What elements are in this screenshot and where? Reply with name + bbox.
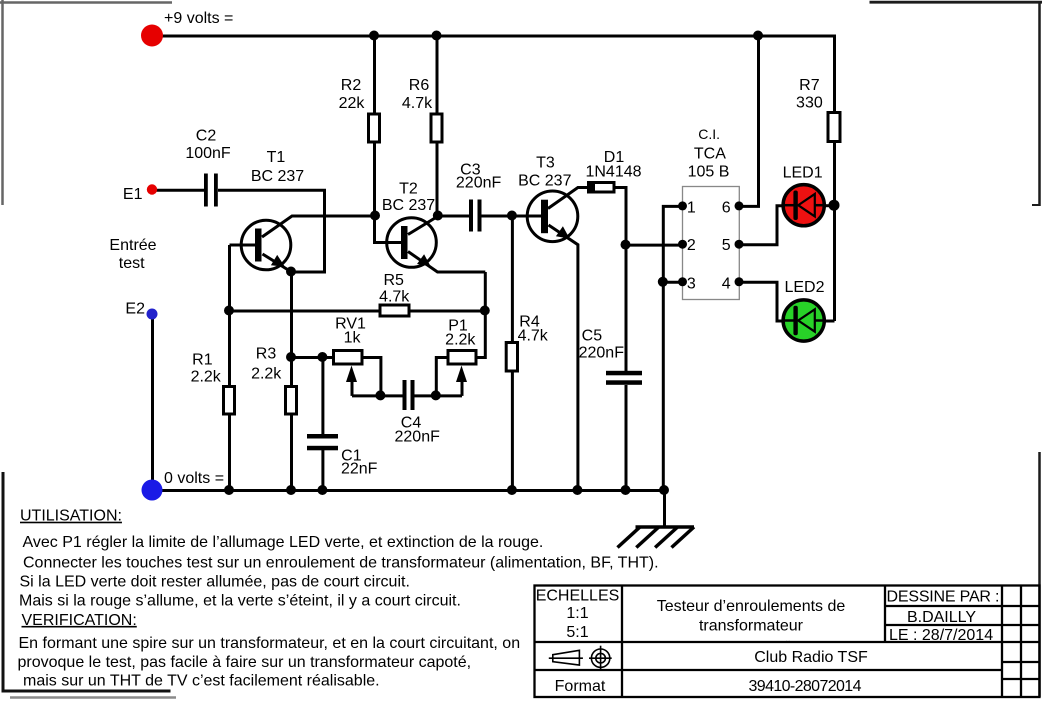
- svg-text:2.2k: 2.2k: [251, 366, 282, 383]
- svg-text:E2: E2: [125, 301, 145, 318]
- wire R2 bottom to T2 base: [375, 142, 403, 243]
- svg-text:LE : 28/7/2014: LE : 28/7/2014: [889, 627, 993, 644]
- wire RV1 wiper rail to C4: [352, 394, 404, 397]
- node +9V power terminal: [141, 25, 163, 47]
- transistor T3: [527, 191, 578, 242]
- svg-text:UTILISATION:: UTILISATION:: [20, 508, 122, 525]
- title block texts: [536, 588, 1000, 696]
- svg-text:R1: R1: [192, 352, 213, 369]
- resistor R6: [431, 114, 442, 142]
- svg-text:Avec P1 régler la limite de l’: Avec P1 régler la limite de l’allumage L…: [23, 534, 544, 551]
- wire R4 lower: [511, 371, 514, 491]
- frame top-right segment: [870, 1, 1042, 4]
- resistor R1: [224, 387, 235, 415]
- svg-text:B.DAILLY: B.DAILLY: [907, 609, 976, 626]
- wire R7 bottom to LED2: [833, 142, 836, 322]
- wire pin5 to LED1: [739, 206, 785, 245]
- svg-text:Testeur d’enroulements de: Testeur d’enroulements de: [657, 598, 846, 615]
- svg-text:22nF: 22nF: [341, 461, 378, 478]
- svg-text:1k: 1k: [344, 330, 362, 347]
- capacitor C5: [606, 371, 642, 385]
- IC pin dots: [678, 201, 744, 286]
- svg-text:1:1: 1:1: [566, 605, 588, 622]
- wire R6 node to C3: [438, 215, 470, 218]
- wire R7 top: [833, 35, 836, 114]
- resistor R4: [506, 343, 517, 372]
- svg-text:22k: 22k: [339, 95, 366, 112]
- wire T1 emitter lead: [263, 254, 292, 272]
- LED2 green: [783, 300, 824, 341]
- svg-text:test: test: [119, 255, 145, 272]
- potentiometer RV1 body: [334, 351, 363, 365]
- diode D1 body: [589, 183, 615, 193]
- potentiometer P1 wiper arrow: [456, 366, 467, 383]
- wire P1 left terminal up: [436, 358, 449, 396]
- wire C5 upper: [625, 245, 628, 372]
- svg-text:R6: R6: [409, 77, 430, 94]
- node E2 terminal: [147, 309, 158, 320]
- wire R5 right: [410, 310, 486, 313]
- wire R5 left: [230, 310, 382, 313]
- svg-text:ECHELLES: ECHELLES: [536, 588, 620, 605]
- wire C5 lower: [625, 385, 628, 491]
- svg-text:330: 330: [796, 95, 823, 112]
- wire C1 bottom: [321, 450, 324, 491]
- svg-text:4: 4: [722, 276, 731, 293]
- wire T3 emitter lead: [549, 225, 578, 491]
- notes box bottom border: [2, 690, 171, 693]
- wire R1 line lower: [228, 414, 231, 491]
- svg-text:Si la LED verte doit rester al: Si la LED verte doit rester allumée, pas…: [20, 573, 410, 590]
- svg-text:2.2k: 2.2k: [191, 369, 222, 386]
- capacitor C4: [403, 380, 415, 410]
- svg-text:mais sur un THT de TV c’est fa: mais sur un THT de TV c’est facilement r…: [23, 673, 380, 690]
- wire R3 line lower: [290, 414, 293, 491]
- wire pin3: [663, 281, 682, 284]
- svg-text:BC 237: BC 237: [382, 197, 435, 214]
- wire C3 to T3 base: [482, 215, 543, 218]
- node E1 terminal: [147, 184, 157, 194]
- projection symbol cone: [549, 650, 583, 665]
- resistor R2: [369, 114, 380, 142]
- wire T1 emitter / R3 line upper: [290, 272, 293, 388]
- notes box shadow: [10, 696, 176, 699]
- ground symbol: [618, 527, 695, 548]
- wire 0V bottom rail: [153, 489, 665, 492]
- svg-text:220nF: 220nF: [395, 429, 441, 446]
- svg-text:6: 6: [722, 200, 731, 217]
- svg-text:BC 237: BC 237: [518, 173, 571, 190]
- frame top-left segment: [0, 1, 172, 4]
- frame right tick: [1032, 204, 1040, 206]
- wire T1 base to R1 line: [230, 244, 257, 247]
- wire T2 collector to R6 node: [408, 216, 438, 235]
- svg-text:BC 237: BC 237: [251, 168, 304, 185]
- wire P1 wiper shaft: [461, 380, 464, 396]
- svg-text:39410-28072014: 39410-28072014: [749, 678, 862, 695]
- wire RV1 wiper shaft: [351, 380, 354, 396]
- svg-text:2.2k: 2.2k: [445, 332, 476, 349]
- wire T1 collector to R2 node: [262, 216, 376, 237]
- frame left upper segment: [1, 0, 4, 205]
- wire P1 right to T2 emitter line: [476, 272, 486, 358]
- svg-text:3: 3: [687, 276, 696, 293]
- resistor R5: [380, 305, 409, 316]
- capacitor C1: [307, 434, 338, 450]
- wire LED1 right: [824, 204, 835, 207]
- svg-text:T2: T2: [399, 181, 418, 198]
- wire C4 right to P1 wiper: [414, 394, 462, 397]
- svg-text:TCA: TCA: [694, 146, 726, 163]
- svg-text:0 volts =: 0 volts =: [164, 470, 224, 487]
- notes box left border: [2, 472, 5, 693]
- svg-text:220nF: 220nF: [579, 345, 625, 362]
- svg-text:C2: C2: [196, 128, 217, 145]
- notes paragraph: [18, 508, 659, 690]
- svg-text:R7: R7: [799, 77, 820, 94]
- wire pin2: [626, 244, 683, 247]
- svg-text:C.I.: C.I.: [698, 126, 720, 142]
- svg-text:100nF: 100nF: [185, 145, 231, 162]
- svg-text:4.7k: 4.7k: [379, 289, 410, 306]
- svg-text:T3: T3: [536, 155, 555, 172]
- wire R6 top: [436, 36, 439, 116]
- svg-text:provoque le test, pas facile à: provoque le test, pas facile à faire sur…: [18, 654, 472, 671]
- wire E2 down: [151, 315, 154, 491]
- svg-text:En formant une spire sur un tr: En formant une spire sur un transformate…: [19, 635, 521, 652]
- svg-text:LED1: LED1: [783, 165, 823, 182]
- potentiometer RV1 wiper arrow: [346, 366, 357, 383]
- projection symbol target circle: [589, 646, 612, 670]
- svg-text:5: 5: [722, 237, 731, 254]
- wire R1 line upper: [228, 245, 231, 388]
- svg-text:4.7k: 4.7k: [518, 328, 549, 345]
- wire T3 collector to D1: [548, 188, 590, 209]
- svg-text:¨: ¨: [786, 638, 790, 653]
- transistor T2: [387, 218, 437, 268]
- wire ground stub: [663, 491, 666, 528]
- svg-text:Format: Format: [555, 678, 606, 695]
- svg-text:1: 1: [687, 200, 696, 217]
- wire +9V top rail: [153, 35, 835, 38]
- wire pin4 to LED2: [739, 282, 785, 321]
- frame right upper segment: [1038, 2, 1041, 206]
- wire R4 upper: [511, 216, 514, 344]
- resistor R7: [828, 113, 840, 142]
- wire pin1 to pin3 line: [663, 206, 682, 490]
- LED1 red: [783, 185, 824, 226]
- capacitor C2: [204, 174, 218, 207]
- svg-text:transformateur: transformateur: [699, 618, 804, 635]
- wire C2 to T1 emitter: [218, 190, 325, 272]
- svg-text:Entrée: Entrée: [109, 237, 156, 254]
- svg-text:R5: R5: [383, 272, 404, 289]
- svg-text:Mais si la rouge s’allume, et: Mais si la rouge s’allume, et la verte s…: [19, 593, 461, 610]
- svg-text:C5: C5: [582, 328, 603, 345]
- title block grid: [535, 586, 1040, 698]
- potentiometer P1 body: [448, 351, 476, 365]
- svg-text:1N4148: 1N4148: [585, 164, 641, 181]
- svg-text:R2: R2: [341, 77, 362, 94]
- wire R2 top: [373, 36, 376, 116]
- frame right lower segment: [1038, 452, 1041, 697]
- svg-text:4.7k: 4.7k: [402, 95, 433, 112]
- svg-text:5:1: 5:1: [566, 624, 588, 641]
- svg-text:VERIFICATION:: VERIFICATION:: [22, 612, 137, 629]
- op-amp U1 IC TCA105B box: [683, 187, 740, 300]
- svg-text:E1: E1: [123, 186, 143, 203]
- svg-text:LED2: LED2: [784, 279, 824, 296]
- capacitor C3: [469, 200, 482, 232]
- wire C1 top: [321, 358, 324, 436]
- svg-text:105 B: 105 B: [688, 164, 730, 181]
- svg-text:2: 2: [687, 237, 696, 254]
- wire RV1 right terminal down: [363, 358, 381, 396]
- svg-text:Club Radio TSF: Club Radio TSF: [754, 649, 868, 666]
- wire T2 emitter lead: [408, 252, 485, 273]
- node 0V terminal: [142, 480, 163, 501]
- wire LED2 right: [824, 320, 835, 323]
- svg-text:T1: T1: [267, 149, 286, 166]
- svg-text:Connecter les touches test sur: Connecter les touches test sur un enroul…: [23, 554, 659, 571]
- svg-text:DESSINE PAR :: DESSINE PAR :: [887, 589, 1000, 606]
- svg-text:220nF: 220nF: [456, 175, 502, 192]
- wire E1 to C2: [153, 189, 206, 192]
- resistor R3: [286, 387, 297, 415]
- svg-text:R3: R3: [256, 346, 277, 363]
- wire R6 bottom: [436, 142, 439, 217]
- wire pin6 to top rail: [739, 36, 759, 206]
- wire D1 to pin2 node: [614, 188, 626, 246]
- svg-text:+9 volts =: +9 volts =: [164, 10, 233, 27]
- wire R3 node to RV1: [292, 356, 336, 359]
- diode D1 cathode band: [589, 182, 595, 194]
- transistor T1: [241, 220, 291, 270]
